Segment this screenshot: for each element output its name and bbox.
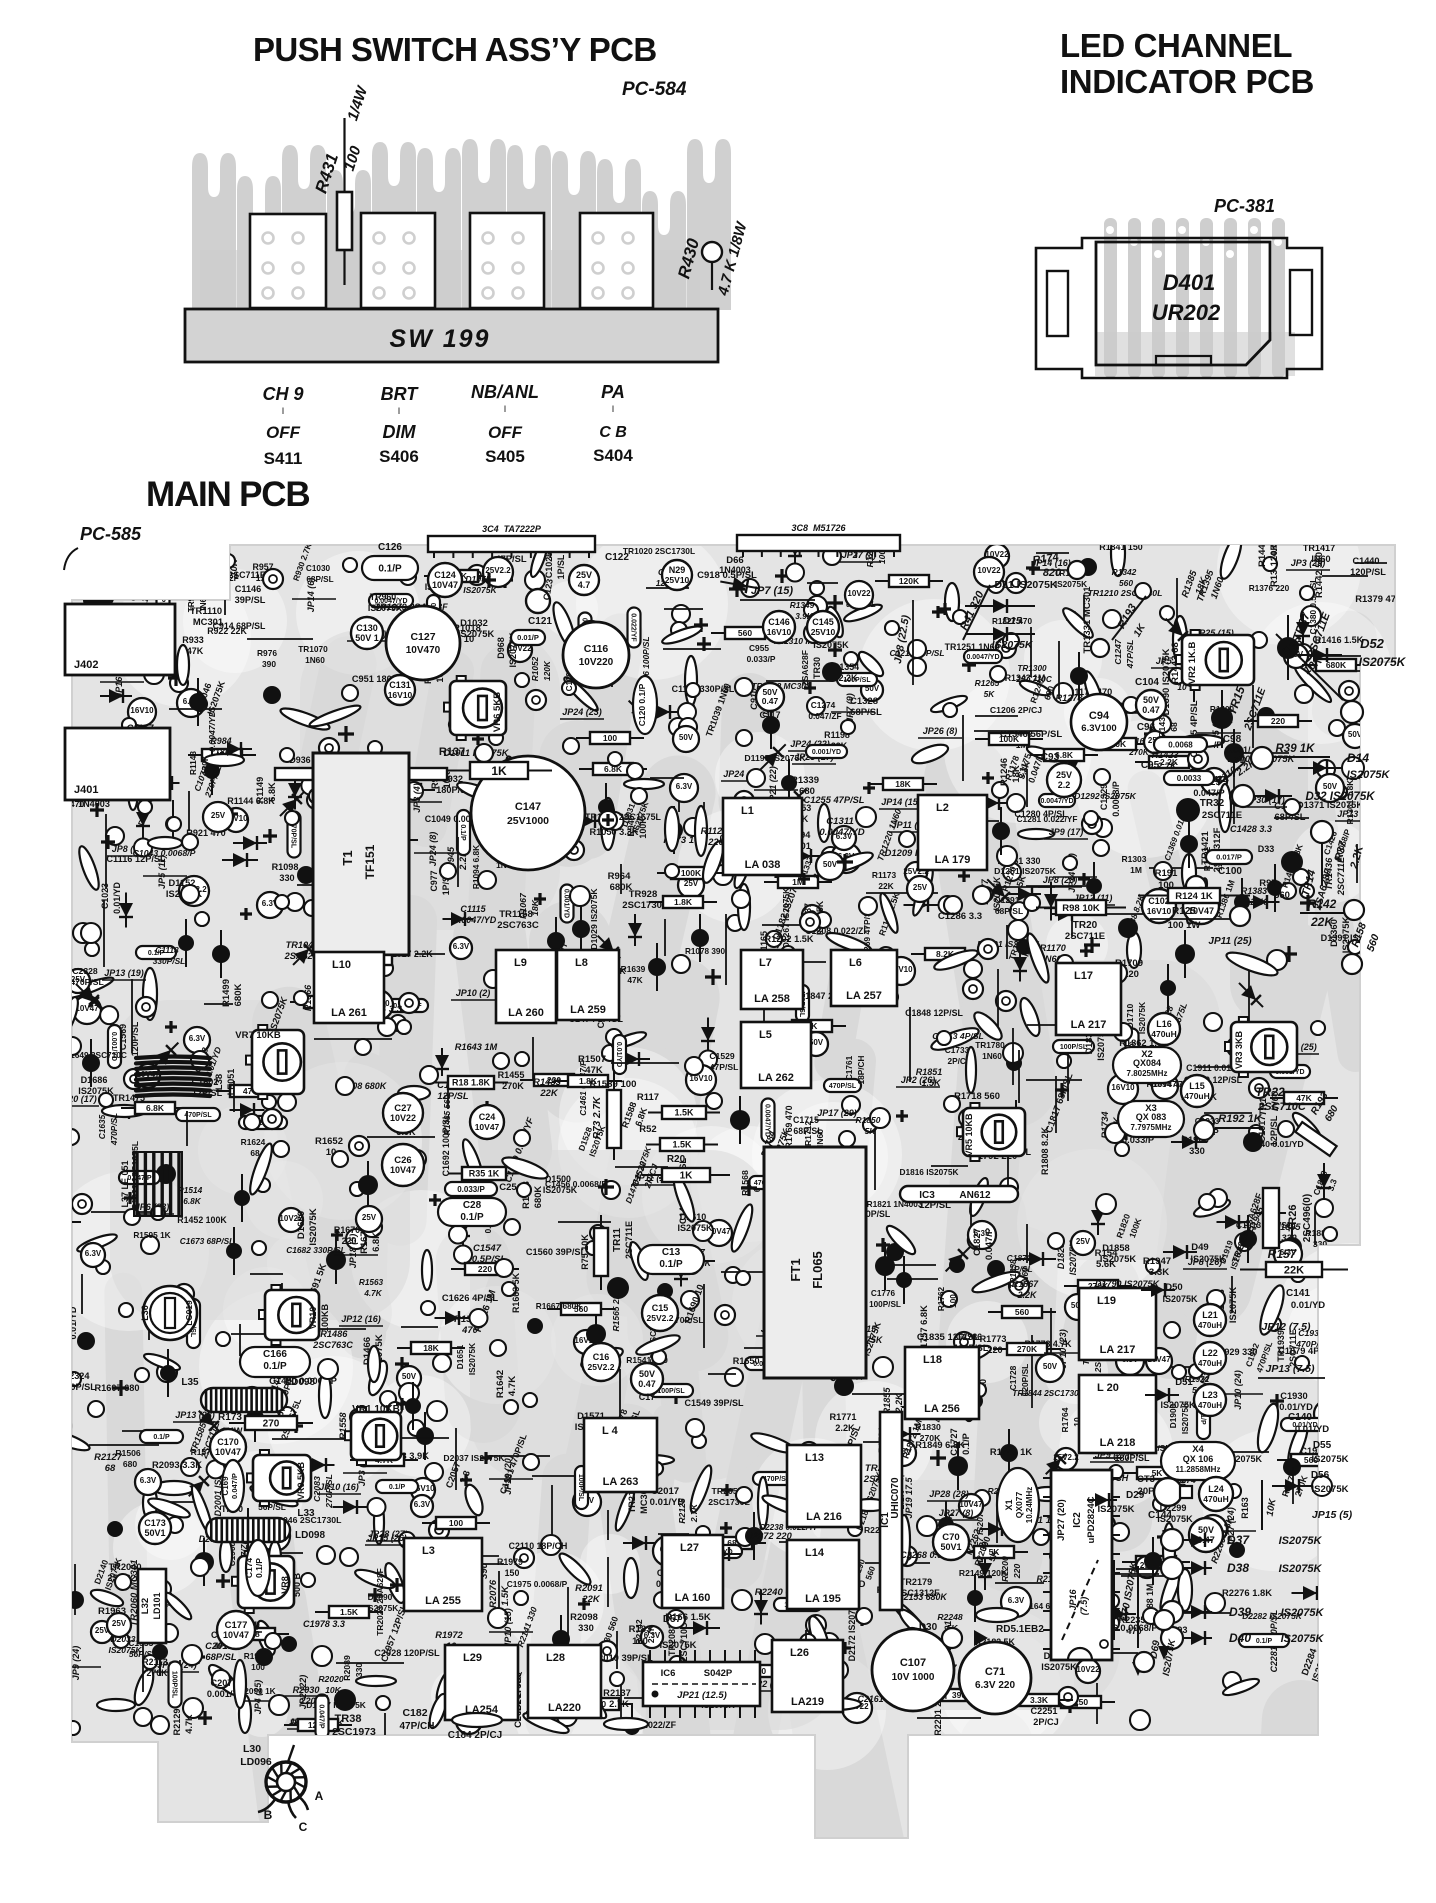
pad P1648 [318,1359,338,1379]
pad P1546 [433,1354,451,1372]
capacitor C1184 outline [1111,530,1125,576]
polarity mark [460,1474,472,1486]
diode D39 [1161,1601,1183,1623]
svg-text:100: 100 [603,733,617,743]
svg-text:120K: 120K [542,660,552,681]
svg-text:C1115: C1115 [460,904,486,914]
svg-text:C130: C130 [356,623,378,633]
pad P2050 [181,1458,199,1476]
svg-text:R18 1.8K: R18 1.8K [452,1078,491,1088]
capacitor C1731 outline [749,1429,796,1456]
svg-text:0.1/P: 0.1/P [263,1361,287,1372]
svg-text:LA 256: LA 256 [924,1403,960,1415]
transistor TR1051 body [598,799,614,815]
wire [364,757,408,759]
pad P1185 [1013,923,1027,937]
pad P1074 [475,744,493,762]
svg-text:D1267 IS2075K: D1267 IS2075K [781,887,791,948]
diode D1772 [939,1228,989,1278]
capacitor C1852 can [887,957,915,985]
svg-text:C1030: C1030 [306,564,331,573]
svg-text:18K: 18K [895,779,911,789]
capacitor C27 [383,1093,423,1133]
wire [954,820,999,822]
transistor TR1697 body [226,1243,242,1259]
wire [233,1081,235,1112]
capacitor C2101 pill [615,1462,663,1475]
capacitor C2239 can [1001,1587,1031,1617]
wire [297,884,371,886]
transistor TR1221 body [1079,558,1097,576]
pad P1986 [153,1580,171,1598]
pad P2294 [1153,1497,1167,1511]
pad P1480 [96,1260,110,1274]
svg-text:16V10: 16V10 [767,627,792,637]
pad P2103 [736,1528,754,1546]
pad P2330 [63,1037,81,1055]
wire [904,1189,982,1191]
testpoint TP1556 [715,1305,735,1325]
capacitor C1100 outline [177,645,189,685]
pad P1683 [493,1053,509,1069]
wire [620,864,622,894]
svg-text:JP24 (23): JP24 (23) [562,707,602,717]
transistor TR2052 body [445,1552,461,1568]
pad P2224 [1095,1622,1109,1636]
pad P1130 [665,864,679,878]
pad P1449 [484,970,502,988]
svg-text:6.3V 220: 6.3V 220 [975,1680,1015,1691]
wire [1192,1451,1269,1453]
coil box L18 LA256 [905,1347,979,1419]
polarity mark [578,1598,590,1610]
diode D1832 [1013,947,1027,982]
svg-text:R1979: R1979 [497,1557,523,1567]
capacitor C1630 can [363,990,393,1020]
svg-text:L24: L24 [1208,1484,1224,1494]
capacitor C1111 pill [427,595,440,640]
transistor TR2124 body [679,1690,695,1706]
svg-text:IS2075K: IS2075K [1137,1002,1147,1034]
wire [1204,1112,1252,1114]
svg-text:D38: D38 [1227,1561,1249,1575]
pad P2064 [115,1574,131,1590]
resistor R124 1K box [1138,895,1250,897]
wire [1050,1308,1052,1356]
capacitor C124 [428,563,462,597]
wire [1030,627,1032,677]
transistor TR1759 body [987,1260,1005,1278]
wire [1027,1024,1088,1026]
capacitor C1384 outline [1292,663,1334,705]
svg-text:R2020: R2020 [318,1674,344,1684]
pill C25 0.033/P [445,1182,497,1196]
svg-text:R933: R933 [182,635,204,645]
transistor TR2332 body [66,1591,84,1609]
svg-text:C104: C104 [1135,677,1159,688]
svg-text:560: 560 [1365,933,1382,954]
pad P988 [286,893,304,911]
testpoint TP979 [734,791,754,811]
wire [806,1542,808,1584]
pad P1141 [144,664,164,684]
capacitor C1272 outline [877,892,901,935]
pad P913 [195,912,209,926]
svg-text:100P/SL: 100P/SL [869,1300,901,1309]
pad P1530 [262,1095,276,1109]
svg-text:L30: L30 [243,1743,261,1755]
wire [931,1165,968,1167]
pad P2265 [1130,1710,1150,1730]
svg-text:C117: C117 [759,710,780,720]
capacitor C1344 can [845,581,873,609]
diode D995 [571,812,624,830]
pad P1694 [191,1051,209,1069]
pad P1512 [363,1212,381,1230]
wire [1196,1066,1250,1068]
svg-text:470: 470 [1126,1626,1141,1636]
svg-text:D56: D56 [1311,1470,1330,1481]
testpoint TP1703 [963,979,983,999]
capacitor C2154 can [842,1693,872,1723]
pad P1961 [151,1716,169,1734]
capacitor C107 [872,1629,954,1711]
toroid L30 [258,1745,308,1818]
IC strip bar 2 [737,535,900,551]
capacitor C2163 outline [878,1445,905,1492]
svg-text:IS2075K: IS2075K [1098,1504,1135,1515]
testpoint TP1831 [818,1356,838,1376]
svg-text:C96: C96 [1137,722,1156,733]
capacitor C1814 can [804,1032,828,1056]
svg-text:C1776: C1776 [871,1289,896,1298]
pad P1372 [1293,869,1309,885]
capacitor C1601 outline [368,1346,380,1382]
svg-text:JP10 (16): JP10 (16) [319,1482,359,1492]
svg-text:IS2075K: IS2075K [992,639,1034,651]
resistor R2054 box [315,1611,383,1613]
wire [646,587,689,589]
svg-text:68: 68 [1169,722,1179,732]
svg-text:470P/SL: 470P/SL [829,1083,857,1090]
resistor R1633 box [647,1260,715,1262]
connector J402 [65,604,175,675]
wire [74,1564,76,1615]
pad P2298 [1196,1530,1214,1548]
transistor TR963 body [297,866,315,884]
svg-text:C1835 12P/SL: C1835 12P/SL [917,1332,980,1343]
svg-text:2SA628F: 2SA628F [800,650,810,686]
svg-text:16V10: 16V10 [388,690,413,700]
svg-text:680K: 680K [532,1186,543,1209]
svg-text:D39: D39 [1229,1605,1251,1619]
svg-text:R73 2.7K: R73 2.7K [592,1096,603,1139]
wire [1088,1652,1138,1654]
svg-text:VR10: VR10 [308,1307,318,1330]
wire [336,1662,404,1664]
wire [708,1373,736,1375]
svg-text:C2325: C2325 [56,1308,66,1335]
capacitor C1093 outline [661,623,704,647]
wire [1252,685,1254,748]
svg-text:D1686: D1686 [81,1075,108,1085]
pad P1693 [350,1409,366,1425]
pad P1535 [380,1391,396,1407]
polarity mark [1002,855,1014,867]
transistor TR1373 body [1175,944,1195,964]
capacitor C2039 outline [97,1699,135,1711]
svg-text:50V1: 50V1 [940,1542,961,1552]
wire [81,1274,83,1314]
svg-text:2.2: 2.2 [1058,780,1071,790]
svg-text:UR202: UR202 [1152,300,1221,325]
wire [1274,817,1309,819]
resistor R2183 box [960,1551,1028,1553]
pad P1623 [495,1259,513,1277]
capacitor C2094 outline [556,1550,594,1588]
svg-text:D1055: D1055 [465,574,491,584]
diode D1168 [755,739,790,774]
polarity mark [480,1101,494,1115]
trimmer VR6 5KB [444,676,506,740]
pill C28 0.1/P [438,1198,506,1226]
switch S405 body [470,213,544,308]
diode D57 [680,1621,720,1635]
pad P1495 [685,1057,703,1075]
crystal X1 QX077 [997,1468,1039,1542]
polarity mark [775,569,789,583]
capacitor C1604 pill [749,1176,786,1189]
pad P2283 [1227,1484,1241,1498]
filter FT1 FL065 [764,1147,866,1378]
polarity mark [602,814,614,826]
wire [397,756,399,819]
pad P1876 [1267,950,1287,970]
svg-text:D55: D55 [1313,1440,1332,1451]
svg-text:TR22: TR22 [1255,1085,1285,1099]
capacitor C1655 outline [579,1344,625,1372]
svg-text:2SC496(0): 2SC496(0) [1302,1194,1313,1242]
svg-text:TR20: TR20 [1073,920,1098,931]
pad P1477 [141,1236,159,1254]
svg-text:R20: R20 [667,1154,686,1165]
IC2 uPD2824C [1051,1470,1112,1660]
capacitor C2107 outline [234,1660,246,1708]
pad P1368 [1378,824,1398,844]
svg-text:D1029 IS2075K: D1029 IS2075K [589,888,599,950]
wire [1327,670,1376,672]
svg-text:0.0047/YD: 0.0047/YD [966,654,999,661]
diode D38 [1161,1557,1183,1579]
pad P1687 [672,955,690,973]
svg-text:L13: L13 [805,1452,824,1464]
wire [558,1221,611,1223]
trimmer VR9 5KB [247,1450,311,1506]
svg-text:120P/SL: 120P/SL [1350,567,1386,577]
svg-text:LA 038: LA 038 [745,859,781,871]
pad P2096 [736,1487,752,1503]
svg-text:470uH: 470uH [1151,1029,1177,1039]
pad P917 [684,818,702,836]
svg-text:47P/SL: 47P/SL [710,1062,739,1072]
transistor TR1427 body [1224,743,1244,763]
crystal X2 [1113,1047,1181,1083]
svg-text:25V10: 25V10 [665,575,690,585]
wire [1233,777,1235,824]
pad P1657 [99,1093,113,1107]
diode D1974 [623,1536,655,1550]
resistor R1647 box [121,1107,189,1109]
svg-text:22K: 22K [1284,1264,1304,1276]
svg-text:IS2075K: IS2075K [1279,1563,1323,1575]
pad P1543 [336,1077,354,1095]
svg-text:R1078 390: R1078 390 [685,947,726,956]
polarity mark [715,1664,727,1676]
capacitor C1618 can [240,1387,264,1411]
svg-text:C1930: C1930 [1280,1391,1307,1401]
diode D2012 [182,1457,228,1503]
pad P1944 [1295,1356,1309,1370]
transistor TR1805 body [826,1226,846,1246]
pad P2032 [317,1546,335,1564]
svg-text:1M: 1M [1130,865,1142,875]
pad P1599 [693,1221,713,1241]
pad P1235 [992,782,1008,798]
svg-text:6.3V: 6.3V [453,942,470,951]
testpoint TP1716 [799,1442,819,1462]
svg-text:L26: L26 [790,1647,809,1659]
svg-text:UHIC070: UHIC070 [890,1477,901,1519]
svg-text:R1851: R1851 [916,1067,943,1077]
svg-text:6.3V: 6.3V [414,1500,431,1509]
wire [1026,1079,1082,1081]
pad P1732 [1057,1054,1071,1068]
polarity mark [784,1050,798,1064]
coil box L1 LA038 [723,798,802,875]
pad P2323 [67,1372,81,1386]
svg-text:C1692 100P/SL: C1692 100P/SL [441,1113,451,1176]
capacitor C2270 can [901,1628,923,1650]
capacitor C1760 outline [771,1327,813,1352]
svg-text:IS2075K: IS2075K [1312,1454,1349,1465]
svg-text:R2276 1.8K: R2276 1.8K [1222,1587,1272,1598]
svg-text:JP15 (26): JP15 (26) [367,1533,407,1543]
svg-text:L32: L32 [140,1598,151,1614]
svg-text:R1342: R1342 [1112,567,1137,577]
svg-text:C71: C71 [985,1666,1005,1678]
svg-text:C122: C122 [605,552,629,563]
capacitor C1085 outline [695,806,707,856]
svg-text:120K: 120K [1269,544,1280,567]
svg-text:4.7K: 4.7K [363,1289,382,1298]
capacitor C1367 outline [1217,533,1246,581]
pad P2063 [191,1558,209,1576]
svg-text:C1848 12P/SL: C1848 12P/SL [905,1008,963,1018]
capacitor C1552 can [397,1366,421,1390]
wire [1288,655,1361,657]
capacitor C1304 outline [829,849,874,875]
capacitor C2007 can [573,1488,601,1516]
pad P985 [280,748,294,762]
wire [526,1711,592,1713]
svg-text:C1728: C1728 [1008,1365,1018,1390]
wire [188,791,190,831]
pad P2109 [265,1633,281,1649]
svg-text:100KB: 100KB [320,1303,330,1332]
svg-text:L8: L8 [575,957,588,969]
svg-text:C174: C174 [244,1558,254,1579]
diode D1374 [1294,614,1312,662]
capacitor C93 [1047,763,1081,797]
pad P1886 [1209,1189,1227,1207]
svg-text:C1023: C1023 [100,883,110,909]
polarity mark [982,772,994,784]
svg-text:C13: C13 [662,1247,681,1258]
resistor R2111 box [284,1724,352,1726]
polarity mark [1300,895,1316,911]
transistor TR1745 body [963,1113,979,1129]
pad P1019 [95,771,113,789]
transistor TR1531 body [683,1257,701,1275]
pad P1653 [590,1225,606,1241]
svg-text:68P/SL: 68P/SL [205,1651,237,1662]
capacitor C1971 outline [239,1695,251,1733]
capacitor C987 can [128,698,156,726]
capacitor C1554 can [279,1208,303,1232]
capacitor C2134 outline [269,1541,281,1575]
svg-text:4.7K: 4.7K [184,1714,194,1734]
testpoint TP1749 [996,991,1016,1011]
wire [551,1485,553,1545]
svg-text:TR1939: TR1939 [1276,1330,1286,1362]
pad P1082 [143,749,157,763]
svg-text:R173: R173 [218,1412,242,1423]
capacitor C1747 outline [1127,1311,1137,1351]
diode D2230 [980,1520,1028,1538]
svg-text:C184 2P/CJ: C184 2P/CJ [448,1730,502,1741]
capacitor C2102 can [260,1521,290,1551]
wire [467,1555,499,1557]
pad P1621 [736,1271,750,1285]
capacitor C978 outline [685,656,697,706]
resistor R18 1.8K box [434,1082,508,1084]
svg-text:25V: 25V [576,570,592,580]
svg-text:C2328: C2328 [72,966,98,976]
pad P1539 [408,1150,426,1168]
svg-text:C131: C131 [389,680,411,690]
svg-text:L35: L35 [181,1377,199,1388]
diode D1465 [104,1105,140,1119]
pad P906 [170,674,188,692]
pad P1192 [1093,840,1109,856]
svg-text:0.033/P: 0.033/P [457,1185,485,1194]
capacitor C1942 pill [1270,1065,1310,1078]
pad P1513 [216,1332,230,1346]
capacitor C1679 can [356,1206,382,1232]
wire [491,1670,493,1708]
pad P1723 [944,1096,960,1112]
svg-text:JP20 (17): JP20 (17) [57,1094,97,1104]
capacitor C1114 pill [449,718,486,731]
pad P1892 [1249,1125,1263,1139]
capacitor C123 [526,589,550,613]
svg-text:C170: C170 [217,1437,239,1447]
capacitor C2171 outline [1030,1487,1066,1501]
svg-text:C2028 120P/SL: C2028 120P/SL [374,1648,440,1658]
pad P2243 [996,1687,1014,1705]
svg-text:0.1/P: 0.1/P [389,1484,406,1491]
svg-text:L6: L6 [849,957,862,969]
